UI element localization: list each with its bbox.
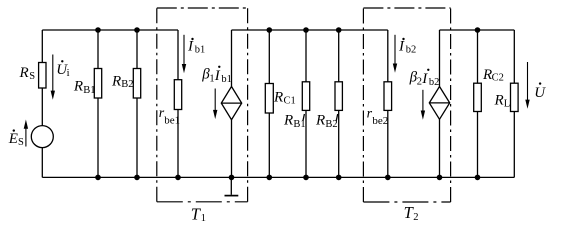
label rbe1 [159, 106, 180, 127]
svg-text:b2: b2 [406, 45, 417, 56]
svg-text:R: R [494, 92, 504, 108]
label ES (dotted E, source emf) [8, 129, 24, 148]
svg-text:B1: B1 [83, 85, 95, 96]
label T1 [191, 204, 206, 224]
arrow beta1Ib1 (source current, down) [213, 89, 217, 120]
ground [230, 177, 232, 194]
wire top rail segment 1 (input/base node) [42, 29, 178, 31]
svg-text:R: R [111, 74, 121, 90]
svg-text:S: S [29, 71, 35, 82]
label RS [19, 65, 36, 82]
label T2 [404, 203, 419, 223]
resistor RL [511, 83, 519, 111]
wire RC1 branch top [268, 30, 270, 84]
svg-text:b1: b1 [221, 74, 232, 85]
controlled source beta2 Ib2 diamond [429, 87, 449, 120]
arrow ES (emf direction, up) [24, 120, 28, 147]
svg-text:U: U [534, 85, 546, 101]
label RB2' [315, 113, 338, 130]
svg-text:be1: be1 [164, 114, 180, 126]
transistor box T2 [363, 7, 450, 9]
resistor RB1' [302, 82, 309, 111]
wire RC2 branch bottom [477, 112, 479, 178]
svg-text:2: 2 [413, 212, 418, 223]
svg-text:R: R [273, 90, 283, 106]
resistor RS [39, 63, 46, 89]
svg-text:b1: b1 [195, 45, 206, 56]
svg-text:C2: C2 [492, 72, 504, 83]
wire RL branch bottom [513, 112, 515, 178]
wire source to bottom rail [41, 148, 43, 178]
label RC1 [273, 90, 296, 107]
wire rbe2 branch bottom [387, 110, 389, 177]
node dot RB1' bottom [303, 175, 309, 181]
node dot RB2 top [134, 27, 140, 33]
node dot RC2 top [475, 27, 481, 33]
wire RB2 branch bottom [136, 98, 138, 177]
svg-text:i: i [67, 68, 70, 79]
node dot diamond2 bottom [437, 175, 443, 181]
label RC2 [482, 67, 504, 84]
wire RB2' branch bottom [338, 110, 340, 177]
label beta2 Ib2 [409, 69, 440, 88]
arrow beta2Ib2 (source current, down) [421, 90, 425, 120]
wire diamond2 branch top [439, 30, 441, 87]
svg-text:I: I [187, 39, 194, 55]
resistor RB2' [335, 82, 342, 111]
wire RB2 branch top [136, 30, 138, 69]
wire RB1' branch bottom [305, 110, 307, 177]
svg-text:B1: B1 [293, 119, 305, 130]
wire diamond1 branch bottom [231, 120, 233, 178]
node dot RC1 top [267, 27, 273, 33]
label RB2 [111, 74, 133, 90]
svg-text:1: 1 [201, 213, 206, 223]
svg-text:I: I [398, 39, 405, 55]
wire rbe1 branch top [177, 30, 179, 80]
resistor RB2 [133, 69, 140, 99]
label Ui (dotted U, input voltage) [56, 60, 69, 79]
resistor rbe1 [174, 80, 181, 110]
transistor box T1 [157, 7, 248, 9]
arrow U (output voltage, down) [525, 62, 529, 109]
wire rbe1 branch bottom [177, 110, 179, 178]
node dot RB1 top [95, 27, 101, 33]
wire left column top [41, 30, 43, 63]
wire RS to source [41, 88, 43, 126]
wire RL branch top [513, 30, 515, 83]
resistor rbe2 [384, 82, 392, 111]
wire RC1 branch bottom [268, 113, 270, 177]
resistor RC2 [474, 83, 482, 111]
svg-text:E: E [8, 131, 18, 147]
svg-text:B2: B2 [121, 79, 133, 90]
node dot RB2' top [336, 27, 342, 33]
label RB1' [283, 113, 306, 130]
wire RC2 branch top [477, 30, 479, 83]
label rbe2 [367, 107, 389, 128]
label beta1 Ib1 [201, 66, 232, 85]
controlled source beta1 Ib1 diamond [221, 87, 241, 120]
wire diamond2 branch bottom [439, 119, 441, 177]
wire top rail segment 3 (collector2/output node) [440, 29, 515, 31]
label Ib1 (dotted I) [187, 38, 205, 56]
svg-text:R: R [73, 79, 83, 95]
svg-text:C1: C1 [284, 96, 296, 107]
node dot rbe1 bottom [175, 175, 181, 181]
node dot RB2 bottom [134, 175, 140, 181]
wire rbe2 branch top [387, 30, 389, 82]
svg-text:I: I [214, 68, 221, 84]
wire top rail segment 2 (collector1 node) [232, 29, 388, 31]
svg-text:S: S [18, 137, 24, 148]
node dot RC1 bottom [267, 175, 273, 181]
label Ib2 (dotted I) [398, 38, 416, 56]
label RL [494, 92, 511, 109]
wire diamond1 branch top [231, 30, 233, 87]
node dot diamond1 bottom [229, 175, 235, 181]
node dot RB2' bottom [336, 175, 342, 181]
wire RB2' branch top [338, 30, 340, 82]
label RB1 [73, 79, 96, 96]
node dot RB1 bottom [95, 175, 101, 181]
svg-text:R: R [19, 65, 29, 81]
resistor RB1 [94, 69, 101, 99]
wire RB1 branch top [97, 30, 99, 69]
node dot RB1' top [303, 27, 309, 33]
wire bottom rail (common) [42, 176, 514, 178]
wire RB1' branch top [305, 30, 307, 82]
svg-text:R: R [283, 113, 293, 129]
arrow Ib1 (base current 1, down) [182, 35, 186, 73]
arrow Ib2 (base current 2, down) [393, 35, 397, 73]
svg-text:I: I [421, 71, 428, 87]
resistor RC1 [265, 84, 273, 114]
svg-text:be2: be2 [372, 115, 388, 127]
node dot RC2 bottom [475, 175, 481, 181]
svg-text:b2: b2 [429, 77, 440, 88]
label U (dotted U, output voltage) [534, 82, 546, 101]
source ES circle [31, 126, 53, 148]
wire RB1 branch bottom [97, 98, 99, 177]
svg-text:L: L [504, 99, 510, 110]
arrow Ui (input voltage, down) [51, 55, 55, 100]
node dot rbe2 bottom [385, 175, 391, 181]
svg-text:R: R [315, 113, 325, 129]
